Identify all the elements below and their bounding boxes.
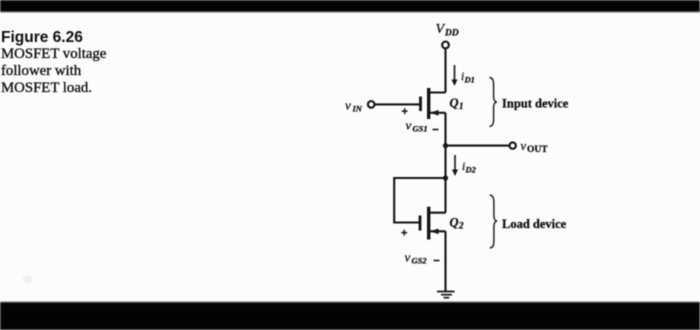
current arrow iD2 [452,155,458,176]
svg-text:Q: Q [450,216,459,230]
svg-text:v: v [521,139,527,153]
label vGS2 [405,250,428,266]
svg-text:Q: Q [450,96,459,110]
svg-text:D1: D1 [464,75,475,85]
svg-text:D2: D2 [465,165,477,175]
label Q1 [450,96,464,111]
label vOUT [521,139,549,155]
VDD label [436,22,459,39]
plus sign vGS2 [401,228,407,240]
minus sign vGS1 [433,129,439,131]
transistor Q2 [420,207,446,240]
wire node to vOUT terminal [446,145,510,147]
figure caption [1,29,106,98]
faint page smudge [23,275,33,284]
wire gate-drain tie loop [394,178,445,223]
vIN terminal [368,101,375,108]
svg-text:Input device: Input device [502,97,569,111]
wire Q1 source down to output node [444,113,446,146]
label iD1 [461,71,475,85]
node at vOUT junction [443,143,448,148]
svg-text:V: V [436,22,446,37]
svg-text:2: 2 [458,221,464,231]
transistor Q1 [421,88,446,119]
wire vIN to Q1 gate [375,103,420,105]
label iD2 [462,161,477,175]
svg-text:v: v [405,250,411,265]
svg-text:Load device: Load device [502,217,567,231]
wire node down to Q2 drain junction [444,146,446,178]
wire VDD to Q1 drain [444,49,446,93]
minus sign vGS2 [434,260,440,262]
label vGS1 [406,118,428,134]
svg-text:OUT: OUT [527,145,548,155]
junction node at Q2 drain-gate tie [443,175,448,180]
VDD terminal [442,42,449,49]
svg-text:1: 1 [459,101,464,111]
plus sign vGS1 [402,106,408,118]
top letterbox bar [0,0,700,12]
current arrow iD1 [452,65,458,86]
svg-text:+: + [401,228,407,240]
wire Q2 source down to ground [444,231,446,291]
label Q2 [450,216,465,231]
brace load device [490,195,497,248]
brace input device [490,78,497,127]
svg-text:IN: IN [352,104,363,114]
svg-text:GS2: GS2 [412,256,428,266]
ground [437,292,455,298]
svg-text:v: v [345,98,351,113]
svg-text:v: v [406,118,412,133]
bottom letterbox bar [0,302,700,330]
label vIN [345,98,363,114]
svg-text:DD: DD [444,29,459,39]
wire junction down to Q2 drain [444,178,446,213]
svg-text:+: + [402,106,408,118]
svg-text:GS1: GS1 [413,124,428,134]
vOUT terminal [510,142,516,148]
